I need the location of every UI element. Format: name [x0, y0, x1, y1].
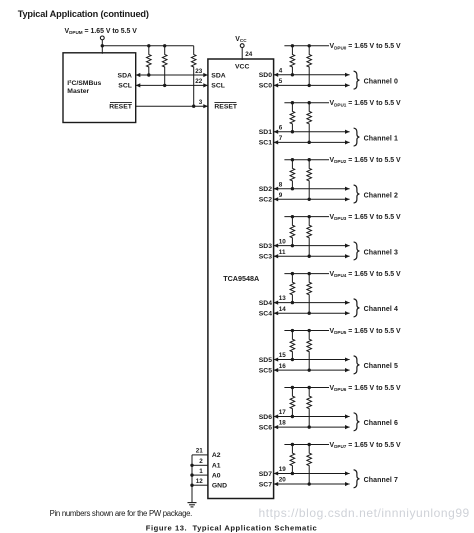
svg-text:https://blog.csdn.net/innniyun: https://blog.csdn.net/innniyunlong99: [259, 506, 470, 520]
junction R-SCL / SCL wire: [163, 84, 166, 87]
resistor pull-up on SC0 (crosses SD0): [307, 46, 312, 86]
resistor pull-up on SC7 (crosses SD7): [307, 444, 312, 484]
junction rail / resistor R-SDA: [147, 44, 150, 47]
junction R-SDA / SDA wire: [147, 73, 150, 76]
svg-text:11: 11: [279, 249, 286, 256]
svg-text:SC6: SC6: [259, 424, 272, 431]
junction bus / A1: [190, 464, 193, 467]
resistor pull-up on SD1: [290, 103, 295, 132]
junction rail / R-SD5: [291, 329, 294, 332]
junction R-SC4 / SC4 wire: [308, 312, 311, 315]
channel 6 pull-up rail wire: [284, 387, 329, 389]
resistor pull-up on SC1 (crosses SD1): [307, 103, 312, 143]
junction R-SC3 / SC3 wire: [308, 255, 311, 258]
junction R-SC7 / SC7 wire: [308, 482, 311, 485]
svg-text:24: 24: [245, 51, 253, 58]
resistor pull-up on SC4 (crosses SD4): [307, 274, 312, 314]
svg-text:Figure 13. Typical Applicatio: Figure 13. Typical Application Schematic: [146, 523, 318, 532]
junction bus / A0: [190, 473, 193, 476]
svg-text:13: 13: [279, 295, 287, 302]
node VDPUM terminal circle: [100, 36, 104, 40]
brace channel 0: [354, 71, 360, 89]
junction rail / R-SC7: [308, 443, 311, 446]
svg-text:SD5: SD5: [259, 357, 272, 364]
resistor pull-up on SD0: [290, 46, 295, 75]
wire A1 pin stub: [192, 464, 208, 466]
wire SD3 line with arrows: [274, 244, 350, 248]
channel 2 pull-up rail wire: [284, 159, 329, 161]
svg-text:12: 12: [196, 478, 204, 485]
brace channel 5: [354, 356, 360, 374]
channel 0 pull-up rail wire: [284, 45, 329, 47]
junction R-SD2 / SD2 wire: [291, 187, 294, 190]
svg-text:Channel 0: Channel 0: [364, 78, 398, 85]
wire SD2 line with arrows: [274, 187, 350, 191]
resistor pull-up on SC2 (crosses SD2): [307, 160, 312, 200]
wire SC3 line with arrows: [274, 254, 350, 258]
svg-text:A0: A0: [212, 472, 221, 479]
junction R-SC5 / SC5 wire: [308, 368, 311, 371]
resistor pull-up on SDA: [147, 46, 152, 75]
svg-text:Channel 6: Channel 6: [364, 420, 398, 427]
svg-text:Channel 4: Channel 4: [364, 306, 398, 313]
wire VDPUM pull-up rail: [102, 45, 193, 47]
svg-text:SC3: SC3: [259, 254, 272, 261]
junction R-SD6 / SD6 wire: [291, 415, 294, 418]
junction R-SC0 / SC0 wire: [308, 84, 311, 87]
junction rail / R-SC0: [308, 44, 311, 47]
wire SC4 line with arrows: [274, 311, 350, 315]
svg-text:SCL: SCL: [118, 83, 132, 90]
svg-text:2: 2: [199, 458, 203, 465]
wire RESET net with arrow: [136, 104, 208, 108]
svg-text:9: 9: [279, 192, 283, 199]
svg-text:A1: A1: [212, 463, 221, 470]
resistor pull-up on SD4: [290, 274, 295, 303]
brace channel 7: [354, 470, 360, 488]
channel 1 pull-up rail wire: [284, 102, 329, 104]
ground symbol: [188, 503, 197, 507]
svg-text:19: 19: [279, 466, 287, 473]
resistor pull-up on SD2: [290, 160, 295, 189]
svg-text:Pin numbers shown are for the: Pin numbers shown are for the PW package…: [50, 509, 193, 518]
junction rail / R-SD6: [291, 386, 294, 389]
resistor pull-up on SC3 (crosses SD3): [307, 217, 312, 257]
junction rail / R-SC1: [308, 101, 311, 104]
resistor pull-up on SD6: [290, 388, 295, 417]
svg-text:SD0: SD0: [259, 72, 272, 79]
channel 7 pull-up rail wire: [284, 443, 329, 445]
svg-text:SCL: SCL: [211, 83, 225, 90]
junction R-SD7 / SD7 wire: [291, 472, 294, 475]
junction R-SD0 / SD0 wire: [291, 73, 294, 76]
svg-text:20: 20: [279, 477, 287, 484]
junction rail / R-SD4: [291, 272, 294, 275]
wire SC2 line with arrows: [274, 197, 350, 201]
junction rail / R-SD2: [291, 158, 294, 161]
junction rail / R-SC2: [308, 158, 311, 161]
junction rail / R-SD0: [291, 44, 294, 47]
svg-text:I²C/SMBus: I²C/SMBus: [67, 80, 101, 87]
node VCC terminal circle: [240, 44, 244, 48]
svg-text:TCA9548A: TCA9548A: [223, 274, 259, 283]
junction R-RESET / RESET wire: [192, 105, 195, 108]
svg-text:14: 14: [279, 306, 287, 313]
junction rail / R-SC4: [308, 272, 311, 275]
TCA9548A chip box (U1): [208, 59, 274, 499]
svg-text:18: 18: [279, 420, 287, 427]
svg-text:SC5: SC5: [259, 367, 272, 374]
svg-text:SC2: SC2: [259, 197, 272, 204]
junction R-SD1 / SD1 wire: [291, 130, 294, 133]
svg-text:1: 1: [199, 468, 203, 475]
junction R-SC6 / SC6 wire: [308, 425, 311, 428]
svg-text:10: 10: [279, 238, 287, 245]
pin label RESET (master, active low): [109, 103, 133, 111]
channel 4 pull-up rail wire: [284, 273, 329, 275]
svg-text:Master: Master: [67, 88, 89, 95]
wire A0 pin stub: [192, 474, 208, 476]
junction bus / GND: [190, 484, 193, 487]
junction rail / R-SD1: [291, 101, 294, 104]
svg-text:Channel 5: Channel 5: [364, 363, 398, 370]
resistor pull-up on SCL: [162, 46, 167, 86]
junction rail / R-SD3: [291, 215, 294, 218]
wire SC7 line with arrows: [274, 482, 350, 486]
svg-text:4: 4: [279, 67, 283, 74]
wire SCL bus with arrows: [136, 83, 208, 87]
junction R-SC2 / SC2 wire: [308, 198, 311, 201]
junction R-SD4 / SD4 wire: [291, 301, 294, 304]
svg-text:RESET: RESET: [214, 104, 238, 111]
svg-text:Channel 7: Channel 7: [364, 477, 398, 484]
svg-text:SC1: SC1: [259, 140, 272, 147]
resistor pull-up on SC5 (crosses SD5): [307, 331, 312, 371]
brace channel 3: [354, 242, 360, 260]
svg-text:23: 23: [195, 68, 203, 75]
wire SD5 line with arrows: [274, 357, 350, 361]
resistor pull-up on SC6 (crosses SD6): [307, 388, 312, 428]
svg-text:A2: A2: [212, 452, 221, 459]
svg-text:GND: GND: [212, 483, 227, 490]
wire VCC stem: [241, 48, 243, 61]
svg-text:8: 8: [279, 181, 283, 188]
junction rail / resistor R-SCL: [163, 44, 166, 47]
svg-text:SD1: SD1: [259, 129, 272, 136]
channel 3 pull-up rail wire: [284, 216, 329, 218]
wire SDA bus with arrows: [136, 73, 208, 77]
junction rail / R-SC5: [308, 329, 311, 332]
junction VDPUM stem / rail: [101, 44, 104, 47]
wire SD4 line with arrows: [274, 301, 350, 305]
wire SC0 line with arrows: [274, 83, 350, 87]
svg-text:21: 21: [196, 448, 204, 455]
wire A2 pin stub: [192, 454, 208, 456]
svg-text:RESET: RESET: [109, 104, 133, 111]
svg-text:Channel 3: Channel 3: [364, 249, 398, 256]
wire GND pin stub: [192, 484, 208, 486]
resistor pull-up on RESET: [191, 46, 196, 106]
junction rail / R-SD7: [291, 443, 294, 446]
wire VDPUM stem down into master box: [101, 40, 103, 54]
brace channel 6: [354, 413, 360, 431]
svg-text:Channel 2: Channel 2: [364, 192, 398, 199]
brace channel 2: [354, 185, 360, 203]
svg-text:SD7: SD7: [259, 471, 272, 478]
svg-text:5: 5: [279, 78, 283, 85]
channel 5 pull-up rail wire: [284, 330, 329, 332]
svg-text:SC4: SC4: [259, 311, 272, 318]
svg-text:SC0: SC0: [259, 83, 272, 90]
svg-text:7: 7: [279, 135, 283, 142]
junction rail / R-SC3: [308, 215, 311, 218]
label I2C/SMBus Master: [67, 80, 101, 95]
svg-text:Typical Application (continued: Typical Application (continued): [18, 9, 149, 19]
svg-text:SD6: SD6: [259, 414, 272, 421]
svg-text:15: 15: [279, 352, 287, 359]
svg-text:3: 3: [199, 99, 203, 106]
wire SD0 line with arrows: [274, 73, 350, 77]
svg-text:SDA: SDA: [118, 72, 132, 79]
pin label RESET (chip, active low): [214, 103, 238, 111]
svg-text:17: 17: [279, 409, 287, 416]
svg-text:SDA: SDA: [211, 72, 225, 79]
svg-text:SD2: SD2: [259, 186, 272, 193]
svg-text:SC7: SC7: [259, 481, 272, 488]
wire SD7 line with arrows: [274, 471, 350, 475]
svg-text:6: 6: [279, 124, 283, 131]
svg-text:SD4: SD4: [259, 300, 272, 307]
wire SC5 line with arrows: [274, 368, 350, 372]
svg-text:SD3: SD3: [259, 243, 272, 250]
wire address/ground bus vertical: [191, 455, 193, 503]
resistor pull-up on SD7: [290, 444, 295, 473]
junction rail / R-SC6: [308, 386, 311, 389]
junction R-SD3 / SD3 wire: [291, 244, 294, 247]
brace channel 4: [354, 299, 360, 317]
I2C/SMBus Master box: [63, 53, 136, 123]
wire SD6 line with arrows: [274, 414, 350, 418]
resistor pull-up on SD3: [290, 217, 295, 246]
wire SD1 line with arrows: [274, 130, 350, 134]
svg-text:16: 16: [279, 363, 287, 370]
wire SC6 line with arrows: [274, 425, 350, 429]
resistor pull-up on SD5: [290, 331, 295, 360]
svg-text:22: 22: [195, 78, 203, 85]
junction R-SC1 / SC1 wire: [308, 141, 311, 144]
svg-text:VCC: VCC: [235, 63, 249, 70]
wire SC1 line with arrows: [274, 140, 350, 144]
junction R-SD5 / SD5 wire: [291, 358, 294, 361]
brace channel 1: [354, 128, 360, 146]
svg-text:Channel 1: Channel 1: [364, 135, 398, 142]
